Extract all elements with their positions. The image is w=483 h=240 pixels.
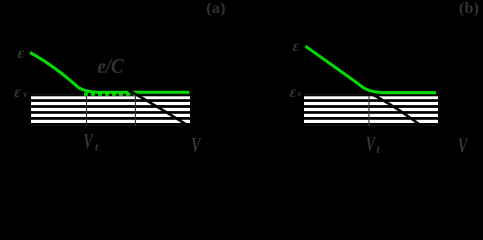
gridline at V_t (a) (86, 96, 88, 126)
gridline at V_t (b) (368, 96, 370, 126)
svg-text:ε: ε (293, 38, 300, 55)
svg-text:V: V (83, 129, 94, 152)
svg-text:v: v (297, 90, 302, 100)
valence band box (a) (31, 95, 190, 126)
valence band box (b) (304, 95, 438, 126)
green dotted pinned-level segment (a) (84, 93, 137, 96)
svg-text:e/C: e/C (97, 55, 124, 78)
black band-edge diagonal line (a) (129, 91, 190, 127)
green electrochemical-potential curve (a) (30, 53, 190, 93)
gridline at second voltage (a) (134, 96, 136, 126)
svg-text:V: V (191, 133, 202, 156)
epsilon_v label (b) (290, 84, 303, 101)
svg-text:t: t (95, 139, 99, 153)
svg-text:V: V (458, 134, 469, 157)
svg-text:ε: ε (290, 84, 297, 101)
green electrochemical-potential curve (b) (306, 46, 437, 92)
svg-text:t: t (376, 142, 380, 156)
axis label V_t (a) (83, 129, 99, 153)
svg-text:(a): (a) (206, 0, 226, 17)
svg-text:v: v (23, 90, 28, 100)
svg-text:ε: ε (18, 45, 25, 62)
epsilon_v label (a) (14, 84, 28, 101)
svg-text:(b): (b) (459, 0, 479, 17)
black band-edge diagonal line (b) (371, 94, 424, 128)
axis label V_t (b) (366, 132, 381, 156)
svg-text:ε: ε (14, 84, 21, 101)
svg-text:V: V (366, 132, 377, 155)
